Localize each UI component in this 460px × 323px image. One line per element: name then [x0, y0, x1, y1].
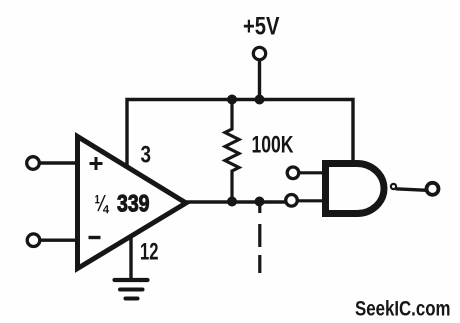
op-amp U1 comparator triangle	[78, 137, 187, 269]
wire dashed probe stub below junction	[258, 204, 261, 213]
gate U2 output inversion bubble	[391, 184, 396, 189]
terminal output	[427, 183, 439, 195]
ground	[115, 278, 148, 282]
svg-text:¼: ¼	[95, 190, 110, 216]
terminal input top	[27, 157, 40, 170]
svg-text:339: 339	[117, 191, 150, 218]
resistor R1 100K	[225, 100, 239, 202]
label - (inverting input)	[89, 236, 101, 239]
wire gate bottom input stub	[297, 199, 326, 202]
label + (non-inverting input)	[90, 157, 103, 170]
wire non-inverting input	[39, 161, 80, 164]
terminal gate input top	[287, 167, 299, 179]
terminal input bottom	[27, 234, 40, 247]
wire inverting input	[40, 238, 80, 241]
wire comparator output bus	[184, 200, 286, 203]
svg-text:3: 3	[141, 142, 152, 169]
wire gate top input stub	[298, 171, 326, 174]
wire +5V stub	[258, 58, 261, 100]
svg-text:SeekIC.com: SeekIC.com	[355, 298, 451, 321]
gate U2 NAND body	[326, 164, 385, 214]
terminal gate input bottom	[286, 195, 298, 207]
wire gate output	[396, 189, 428, 191]
node: rail / +5V junction	[255, 95, 265, 105]
svg-text:+5V: +5V	[243, 13, 280, 41]
node: output / resistor bottom junction	[227, 197, 237, 207]
wire top bus: pin 3 riser, +V rail, drop into gate top	[127, 100, 353, 168]
wire pin 12 to ground	[129, 236, 132, 279]
svg-text:12: 12	[140, 239, 159, 266]
node: output / probe junction	[255, 197, 265, 207]
node: rail / resistor top junction	[227, 95, 237, 105]
svg-text:100K: 100K	[252, 132, 294, 159]
terminal +5V	[253, 47, 265, 59]
